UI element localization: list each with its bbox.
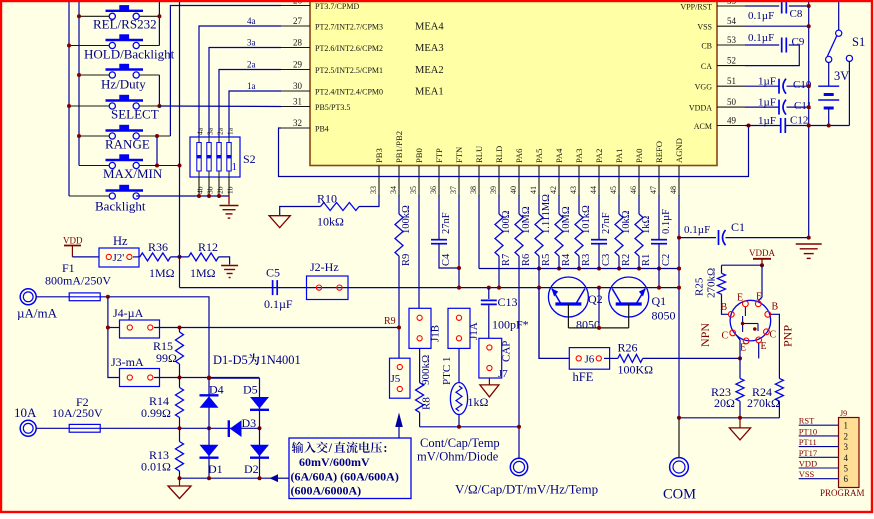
push button REL/RS232 [106, 5, 144, 19]
resistor R14 0.99 ohm [179, 378, 181, 388]
svg-text:E: E [756, 292, 762, 303]
resistor R36 1M [140, 253, 171, 261]
transistor socket NPN/PNP [730, 300, 771, 341]
resistor R6 value 10M&#937; [518, 195, 520, 214]
svg-text:27: 27 [293, 16, 303, 26]
capacitor C13 100pF [488, 288, 490, 299]
wire VDDA pin50 row [745, 106, 780, 108]
wire ACM pin49 row [745, 125, 780, 127]
junction bottom-D1 [207, 476, 211, 480]
fuse F1 800mA/250V [69, 293, 100, 301]
wire SELECT row to IC pin 31 [139, 105, 159, 107]
earth ground right bus [796, 243, 822, 245]
svg-text:ACM: ACM [694, 122, 712, 131]
S2 element 1 [228, 137, 230, 177]
svg-text:100KΩ: 100KΩ [618, 363, 654, 377]
wire net 4a from pin to S2 [199, 26, 281, 137]
svg-text:1N4001: 1N4001 [261, 353, 301, 367]
svg-text:VPP/RST: VPP/RST [680, 3, 712, 12]
junction bridge top [207, 376, 211, 380]
svg-text:0.1µF: 0.1µF [748, 10, 774, 22]
push button Backlight [106, 185, 144, 199]
svg-text:D4: D4 [209, 383, 224, 397]
svg-text:MAX/MIN: MAX/MIN [103, 166, 163, 181]
ground arrow bottom left [179, 478, 181, 486]
IC pin 32 PB4 [281, 127, 310, 129]
wire base tie to bus [598, 288, 600, 328]
wire HOLD right stub [139, 45, 159, 47]
wire jumper Hz-SELECT [158, 75, 160, 106]
svg-text:31: 31 [293, 97, 302, 107]
svg-text:R10: R10 [317, 192, 337, 206]
junction 10Arow-D bridge L [207, 426, 211, 430]
junction V3-REL [157, 14, 161, 18]
svg-text:1µF: 1µF [758, 76, 776, 88]
svg-text:PT3.7/CPMD: PT3.7/CPMD [315, 2, 359, 11]
svg-text:3a: 3a [247, 38, 256, 48]
junction row-R23 [738, 416, 742, 420]
svg-text:1a: 1a [247, 81, 256, 91]
resistor R24 270k [775, 378, 783, 401]
junction V1-SELECT [67, 104, 71, 108]
svg-text:1a: 1a [226, 127, 235, 135]
svg-text:V/Ω/Cap/DT/mV/Hz/Temp: V/Ω/Cap/DT/mV/Hz/Temp [455, 482, 598, 497]
svg-text:R2: R2 [621, 254, 632, 266]
svg-text:2a: 2a [247, 60, 256, 70]
svg-text:Backlight: Backlight [95, 199, 146, 214]
svg-text:VGG: VGG [695, 83, 713, 92]
svg-text:PA6: PA6 [514, 148, 524, 163]
push button Hz/Duty [106, 64, 144, 78]
wire VPP/RST pin55 row [745, 5, 779, 7]
wire V3 to REL right [158, 0, 160, 46]
svg-text:B: B [772, 302, 779, 313]
resistor R25 270k [721, 265, 723, 273]
thermistor PTC1 [458, 348, 460, 383]
svg-text:R36: R36 [148, 240, 168, 254]
svg-text:27nF: 27nF [441, 212, 452, 234]
diode bridge left column [208, 378, 210, 478]
IC pin 36 FTP [438, 166, 440, 197]
wire AGND row under resistor bank [479, 268, 679, 270]
svg-text:PA4: PA4 [554, 148, 564, 163]
svg-text:1kΩ: 1kΩ [468, 395, 489, 409]
svg-text::: : [383, 441, 387, 455]
junction J3row-R15 [178, 376, 182, 380]
svg-text:100Ω: 100Ω [501, 210, 512, 234]
wire pin35 PB0 down to J1B [418, 195, 420, 308]
junction S2 2b [217, 194, 221, 198]
junction 10Arow-R14 [178, 426, 182, 430]
capacitor C9 0.1uF [781, 38, 783, 53]
svg-text:R7: R7 [501, 254, 512, 266]
junction AGND-row268 end [677, 267, 681, 271]
junction AGND-bus end [677, 286, 681, 290]
IC pin 47 REFO [658, 166, 660, 197]
IC pin 26 PT3.7/CPMD [281, 5, 310, 7]
junction V5-R36/R12 [178, 255, 182, 259]
wire net 1a from pin to S2 [229, 91, 281, 137]
svg-text:101kΩ: 101kΩ [581, 205, 592, 234]
push button SELECT [106, 95, 144, 109]
wire 10A to F2 [36, 427, 69, 429]
junction AGND row [617, 267, 621, 271]
svg-text:HOLD/Backlight: HOLD/Backlight [84, 47, 175, 62]
svg-text:46: 46 [629, 186, 638, 194]
svg-text:R26: R26 [618, 341, 638, 355]
arrow note to bridge [270, 474, 279, 482]
svg-text:/: / [328, 441, 333, 455]
junction AGND row [637, 267, 641, 271]
wire R36 to R12 [171, 256, 189, 258]
svg-text:R9: R9 [401, 254, 412, 266]
svg-text:C: C [770, 330, 777, 341]
IC pin 38 RLU [478, 166, 480, 197]
svg-text:D2: D2 [244, 462, 259, 476]
resistor R2 value 10k&#937; [618, 195, 620, 214]
svg-text:34: 34 [389, 186, 398, 194]
svg-text:PNP: PNP [781, 325, 795, 347]
svg-text:1MΩ: 1MΩ [149, 266, 175, 280]
svg-text:37: 37 [449, 186, 458, 194]
wire C10 to bus [787, 85, 809, 87]
junction AGND row [557, 267, 561, 271]
J9 pin 3 PT11 [799, 446, 839, 448]
ground arrow under R23 [739, 418, 741, 428]
wire C3 lead [598, 256, 600, 269]
wire MAX right stub [139, 165, 179, 167]
wire F1 branch down to J3/J4 [108, 297, 120, 378]
fuse F2 10A/250V [69, 424, 100, 432]
svg-text:42: 42 [549, 186, 558, 194]
wire R7 to bus [498, 256, 500, 288]
junction right bus [807, 105, 811, 109]
J9 pin 2 PT10 [799, 435, 839, 437]
svg-text:28: 28 [293, 38, 303, 48]
resistor R7 value 100&#937; [498, 195, 500, 214]
diode D4 [200, 394, 219, 396]
DIP switch S2 body [190, 137, 240, 177]
wire net 3a from pin to S2 [209, 48, 281, 138]
S2 bottom lead 4b [198, 177, 200, 196]
svg-text:R6: R6 [521, 254, 532, 266]
IC pin 31 PB5/PT3.5 [281, 106, 310, 108]
svg-text:hFE: hFE [573, 370, 594, 384]
svg-text:800mA/250V: 800mA/250V [45, 274, 111, 288]
junction battery-ACM [827, 124, 831, 128]
J9 pin 6 VSS [799, 478, 839, 480]
svg-text:CB: CB [701, 42, 712, 51]
wire R6 to mV terminal [518, 256, 520, 459]
junction S2 4b [197, 194, 201, 198]
S2 element 4 [198, 137, 200, 177]
svg-text:D1-D5: D1-D5 [213, 353, 248, 367]
wire R2 lead [618, 256, 620, 269]
svg-text:VSS: VSS [697, 23, 712, 32]
wire V5 Hz net vertical [179, 0, 181, 288]
J9 pin 4 PT17 [799, 456, 839, 458]
IC pin 45 PA1 [618, 166, 620, 197]
svg-text:8050: 8050 [652, 309, 676, 323]
wire button row left stub [79, 15, 109, 17]
svg-text:3b: 3b [206, 186, 215, 194]
wire VDDA to R25 [722, 264, 763, 266]
IC pin 30 PT2.4/INT2.4/CPM0 [281, 90, 310, 92]
svg-text:C5: C5 [266, 266, 280, 280]
IC pin 54 VSS [717, 25, 745, 27]
junction V1-HOLD [67, 44, 71, 48]
svg-text:E: E [761, 341, 767, 352]
svg-text:REFO: REFO [654, 141, 664, 163]
svg-text:RLD: RLD [494, 146, 504, 163]
svg-text:PB4: PB4 [315, 125, 329, 134]
junction VDDA [760, 263, 764, 267]
svg-text:J4-µA: J4-µA [113, 306, 144, 320]
transistor Q1 8050 [609, 277, 649, 317]
svg-text:R12: R12 [198, 240, 218, 254]
svg-text:µA/mA: µA/mA [17, 306, 58, 321]
junction Cont-PTC [457, 425, 461, 429]
svg-text:J7: J7 [498, 368, 508, 380]
svg-text:PT10: PT10 [799, 426, 817, 436]
battery 3V [828, 63, 830, 87]
resistor R4 value 10M&#937; [558, 195, 560, 214]
junction PB4-ACM row [747, 124, 751, 128]
IC pin 50 VDDA [717, 106, 745, 108]
junction bus-Qbase [597, 286, 601, 290]
svg-text:32: 32 [293, 118, 302, 128]
resistor R26 100K [618, 354, 643, 362]
wire R9 net down to J5 [398, 256, 400, 358]
svg-text:1MΩ: 1MΩ [190, 266, 216, 280]
capacitor C10 1uF [778, 79, 780, 94]
jumper J1A [448, 308, 470, 348]
capacitor C12 1uF [780, 118, 782, 133]
wire bridge bottom row [180, 477, 278, 479]
wire Hz right stub [139, 74, 159, 76]
svg-text:60mV/600mV: 60mV/600mV [299, 455, 370, 469]
wire VDD to J2' [72, 256, 99, 258]
IC pin 34 PB1/PB2 [398, 166, 400, 197]
push button MAX/MIN [106, 154, 144, 168]
diode D2 [250, 445, 269, 457]
resistor R9 value 100k&#937; [398, 195, 400, 214]
junction bus-R7 [497, 286, 501, 290]
svg-text:R1: R1 [641, 254, 652, 266]
svg-text:MEA3: MEA3 [415, 43, 444, 54]
wire C8 to bus [789, 5, 809, 7]
junction C1-ground bus [807, 236, 811, 240]
svg-text:CA: CA [701, 62, 712, 71]
IC pin 42 PA4 [558, 166, 560, 197]
svg-text:0.1µF: 0.1µF [748, 32, 774, 44]
diode bridge top wire [209, 377, 260, 379]
resistor R12 1M [189, 253, 219, 261]
svg-text:2a: 2a [216, 127, 225, 135]
right decoupling bus vertical [808, 0, 810, 239]
resistor R23 20 ohm [739, 358, 741, 378]
svg-text:C: C [722, 331, 729, 342]
svg-text:PT2.6/INT2.6/CPM2: PT2.6/INT2.6/CPM2 [315, 44, 383, 53]
wire R5 to bus and hFE row [538, 256, 540, 358]
junction J3row-bridge [207, 376, 211, 380]
svg-text:35: 35 [409, 186, 418, 194]
svg-text:20Ω: 20Ω [714, 396, 735, 410]
wire jumper RANGE-MAX [156, 136, 158, 166]
wire CB pin53 row [745, 44, 779, 46]
wire C1 to ground bus [726, 237, 809, 239]
wire net 2a from pin to S2 [219, 70, 281, 138]
svg-text:3V: 3V [834, 69, 849, 83]
svg-text:REL/RS232: REL/RS232 [93, 17, 157, 32]
svg-text:R8: R8 [421, 397, 433, 410]
junction AGND row [597, 267, 601, 271]
svg-text:AGND: AGND [674, 138, 684, 163]
svg-text:10kΩ: 10kΩ [317, 215, 344, 229]
capacitor C1 0.1uF [718, 230, 720, 245]
wire Cont row [420, 426, 519, 428]
junction J4row-R9net [397, 326, 401, 330]
wire Q1 Q2 base tie [568, 327, 628, 329]
jumper J2-Hz [307, 276, 349, 300]
wire socket E drop [758, 343, 760, 358]
transistor Q2 8050 [548, 277, 588, 317]
junction bottom-R13 [178, 476, 182, 480]
svg-text:C3: C3 [601, 254, 612, 266]
arrow note to J5 [395, 413, 403, 428]
junction right bus [807, 4, 811, 8]
wire R10 to ground [280, 207, 321, 216]
junction AGND-C1 [677, 236, 681, 240]
wire C9 to CA pin52 [745, 45, 799, 66]
resistor R10 [321, 203, 360, 211]
IC pin 40 PA6 [518, 166, 520, 197]
wire AGND to C1 [679, 237, 716, 239]
svg-text:R25: R25 [694, 277, 706, 296]
J9 pin 5 VDD [799, 467, 839, 469]
wire R23 R24 bottom row [679, 417, 779, 419]
IC pin 53 CB [717, 44, 745, 46]
svg-text:0.1µF: 0.1µF [684, 224, 710, 236]
svg-text:J1B: J1B [430, 325, 442, 342]
wire R12 to ground [219, 257, 230, 265]
svg-text:MEA1: MEA1 [415, 87, 444, 98]
diode bridge right column [259, 378, 261, 478]
socket internal wires [742, 316, 744, 332]
svg-text:1: 1 [844, 421, 849, 431]
wire pin37 FTN down to bus [458, 195, 460, 288]
svg-text:54: 54 [727, 16, 737, 26]
svg-text:53: 53 [727, 35, 737, 45]
wire VDDA to socket E [758, 265, 762, 301]
terminal uA/mA [20, 289, 36, 305]
svg-text:270kΩ: 270kΩ [747, 396, 780, 410]
junction bus-C2 [657, 286, 661, 290]
wire AGND to COM [678, 418, 680, 458]
svg-text:270kΩ: 270kΩ [706, 268, 718, 298]
wire R3 lead [578, 256, 580, 269]
junction right bus [807, 84, 811, 88]
wire S1 to ACM row [848, 62, 850, 126]
S2 bottom lead 2b [218, 177, 220, 196]
svg-text:4: 4 [844, 453, 849, 463]
wire REL right stub [139, 15, 159, 17]
svg-text:1: 1 [232, 161, 238, 173]
wire button left bus V2 [78, 0, 80, 166]
svg-text:0.1µF: 0.1µF [661, 209, 672, 234]
svg-text:PTC 1: PTC 1 [441, 357, 453, 385]
IC pin 46 PA0 [638, 166, 640, 197]
svg-text:2b: 2b [216, 186, 225, 194]
wire F1 to bridge top [100, 297, 209, 378]
capacitor C5 0.1uF [272, 280, 274, 295]
junction J4row-left [106, 326, 110, 330]
svg-text:C13: C13 [498, 295, 518, 309]
svg-text:2: 2 [844, 431, 849, 441]
junction AGND row [537, 267, 541, 271]
svg-text:49: 49 [727, 116, 737, 126]
wire button row left stub [79, 74, 109, 76]
wire Backlight row to S2 [136, 195, 229, 197]
svg-text:1b: 1b [226, 186, 235, 194]
IC pin 49 ACM [717, 125, 745, 127]
diode D1 [200, 445, 219, 457]
svg-text:39: 39 [489, 186, 498, 194]
wire pin48 AGND down to COM row [678, 195, 680, 418]
svg-text:SELECT: SELECT [111, 107, 159, 122]
jumper J2' [99, 248, 139, 267]
svg-text:E: E [737, 293, 743, 304]
svg-text:1µF: 1µF [758, 115, 776, 127]
wire button row left stub [69, 105, 109, 107]
svg-text:Cont/Cap/Temp: Cont/Cap/Temp [420, 436, 500, 450]
IC pin 51 VGG [717, 85, 745, 87]
svg-text:6: 6 [844, 474, 849, 484]
IC pin 44 PA2 [598, 166, 600, 197]
push button HOLD/Backlight [106, 34, 144, 48]
svg-text:VDD: VDD [799, 459, 817, 469]
svg-text:J9: J9 [840, 409, 847, 418]
junction jumper-MAX [155, 164, 159, 168]
svg-text:40: 40 [509, 186, 518, 194]
svg-text:MEA4: MEA4 [415, 22, 444, 33]
junction AGND row [677, 267, 681, 271]
junction base tie [597, 326, 601, 330]
resistor R5 value 1.111M&#937; [538, 195, 540, 214]
svg-text:3: 3 [844, 442, 849, 452]
junction right bus [807, 124, 811, 128]
resistor R13 0.01 ohm [179, 428, 181, 441]
svg-text:3a: 3a [206, 127, 215, 135]
svg-text:PA0: PA0 [634, 149, 644, 164]
svg-text:44: 44 [589, 186, 598, 194]
svg-text:99Ω: 99Ω [156, 351, 177, 365]
junction bottom-D2 [258, 476, 262, 480]
wire C2 lead to bus [658, 256, 660, 288]
junction AGND row [577, 267, 581, 271]
svg-text:100pF*: 100pF* [492, 318, 529, 332]
jumper J3-mA [120, 369, 160, 387]
svg-text:30: 30 [293, 81, 303, 91]
IC pin 48 AGND [678, 166, 680, 197]
wire J4 row [108, 327, 120, 329]
jumper J7 CAP [479, 338, 502, 378]
IC pin 39 RLD [498, 166, 500, 197]
junction V5-MAX [178, 164, 182, 168]
IC pin 27 PT2.7/INT2.7/CPM3 [281, 25, 310, 27]
wire button row left stub [69, 45, 109, 47]
svg-text:R3: R3 [581, 254, 592, 266]
